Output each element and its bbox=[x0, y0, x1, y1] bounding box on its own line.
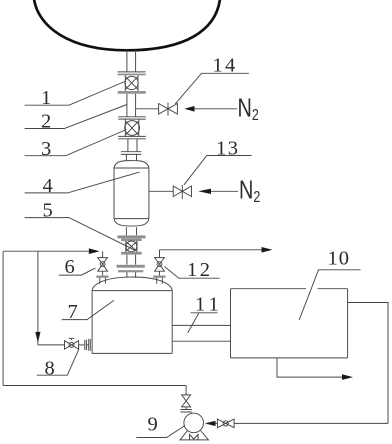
svg-text:5: 5 bbox=[43, 200, 53, 222]
svg-text:1: 1 bbox=[41, 87, 51, 109]
sight glass component 1 bbox=[125, 75, 138, 91]
wire pipe from vessel V0 to flange FA bbox=[127, 50, 136, 72]
label 8 bbox=[37, 349, 79, 379]
vessel V0 bottom head (large reactor above, clipped) bbox=[34, 0, 220, 50]
valve 14 bbox=[159, 103, 178, 116]
flange FG (hatched) bbox=[121, 252, 142, 255]
chamber 10 right outlet wire bbox=[348, 303, 388, 424]
svg-text:13: 13 bbox=[216, 138, 240, 160]
wire valve to arrow bbox=[216, 422, 218, 424]
svg-text:8: 8 bbox=[45, 358, 55, 380]
valve V15 (pump suction) bbox=[217, 419, 234, 428]
valve 13 bbox=[173, 185, 191, 199]
flange FA bbox=[118, 72, 146, 75]
feed wire with arrow into valve 6 bbox=[3, 248, 100, 254]
flange FH wide pair (hatched) on vessel 7 nozzle bbox=[117, 265, 145, 273]
svg-text:11: 11 bbox=[195, 294, 223, 316]
label 1 bbox=[25, 82, 125, 110]
wire from N2 bottom to arrow bbox=[211, 190, 238, 192]
sight glass component 3 bbox=[125, 119, 140, 136]
flange FB (hatched) bbox=[118, 91, 146, 94]
flange FC pair bbox=[118, 117, 146, 119]
svg-text:12: 12 bbox=[187, 259, 213, 281]
flange FF (hatched) below vessel 4 bbox=[117, 235, 145, 238]
flow arrow into valve 13 bbox=[198, 189, 211, 194]
wire stem below component 5 bbox=[127, 255, 136, 265]
svg-text:N2: N2 bbox=[238, 93, 259, 124]
buffer vessel 4 bbox=[114, 155, 149, 227]
valve 8 bbox=[65, 338, 79, 349]
valve V16 above pump bbox=[180, 386, 192, 413]
wire branch to valve 14 bbox=[136, 108, 159, 110]
label 13 bbox=[184, 138, 252, 185]
flange FD pair bbox=[118, 136, 146, 138]
label 9 bbox=[136, 414, 185, 438]
vent wire from valve 12 with arrow right bbox=[160, 247, 273, 253]
valve 12 bbox=[153, 250, 165, 284]
label 5 bbox=[25, 200, 135, 251]
label 11 bbox=[188, 294, 223, 333]
valve 6 bbox=[96, 251, 108, 284]
label 2 bbox=[25, 105, 127, 133]
label 6 bbox=[59, 256, 96, 278]
flange FE pair bbox=[121, 152, 141, 155]
label 3 bbox=[25, 130, 127, 161]
wire from N2 top to arrow bbox=[195, 108, 238, 110]
chamber 10 bottom outlet with arrow bbox=[277, 358, 353, 380]
duct 11 between vessel 7 and chamber 10 bbox=[172, 325, 230, 341]
wire to valve 8 bbox=[38, 344, 65, 346]
wire branch to valve 13 bbox=[149, 190, 173, 192]
wire pipe below vessel 4 bbox=[126, 227, 136, 235]
bottom return wire to pump bbox=[234, 422, 388, 424]
label 4 bbox=[25, 172, 140, 197]
svg-text:N2: N2 bbox=[239, 175, 260, 206]
chamber 10 bbox=[231, 289, 348, 358]
flange at vessel 7 left nozzle bbox=[79, 339, 91, 351]
flow arrow into pump 9 bbox=[205, 421, 216, 426]
sight glass component 5 bbox=[121, 239, 142, 252]
svg-text:4: 4 bbox=[43, 175, 53, 197]
svg-text:9: 9 bbox=[148, 414, 158, 436]
pipe spool component 2 bbox=[127, 94, 136, 117]
long bottom supply wire bbox=[3, 385, 186, 387]
label 7 bbox=[62, 300, 114, 323]
wire nozzle legs into vessel 7 dome bbox=[127, 272, 136, 278]
wire pipe to vessel 4 bbox=[128, 139, 137, 152]
svg-text:3: 3 bbox=[41, 138, 51, 160]
left return line down bbox=[3, 251, 40, 385]
label 10 bbox=[299, 247, 360, 320]
label 14 bbox=[175, 55, 249, 104]
label 12 bbox=[165, 259, 220, 281]
svg-text:10: 10 bbox=[328, 247, 351, 269]
svg-text:2: 2 bbox=[41, 111, 51, 133]
reactor vessel 7 bbox=[92, 277, 172, 353]
pump 9 bbox=[180, 413, 209, 440]
flow arrow into valve 14 bbox=[184, 106, 194, 112]
